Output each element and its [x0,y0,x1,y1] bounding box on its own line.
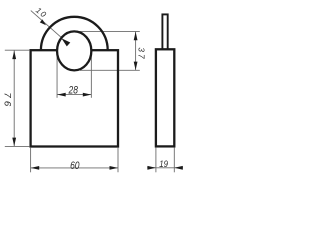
dim 19: left extension line [155,148,157,173]
dim 28: left extension line [56,53,58,98]
dim 19: left arrow (outside, pointing right) [147,166,156,170]
dim 60: left extension line [30,148,32,173]
dim 76: top extension line [5,49,30,51]
dim 10: arrow at inner ellipse [61,38,70,46]
dim 19: dimension line [147,167,183,169]
dim 10: leader line [31,11,62,38]
shackle rod (side view) [162,14,167,50]
dim 28: right arrow [83,93,92,97]
dim 10: arrow at outer arc [40,19,46,25]
dim 76: top arrow [12,51,16,60]
dim 19: right arrow (outside, pointing left) [174,166,183,170]
dim 37: bottom arrow [134,62,138,71]
dim 60: dimension line [31,167,118,169]
dim 37: dimension line [135,32,137,71]
dim 37: top extension line [77,30,140,32]
dim 60: left arrow [31,166,40,170]
dim 28: left arrow [57,93,65,97]
padlock body (front view) [31,50,118,146]
svg-text:19: 19 [159,158,168,169]
svg-text:60: 60 [70,160,80,172]
dim 28: dimension line [57,94,91,96]
dim 37: top arrow [134,32,138,41]
dim 28: right extension line [90,53,92,98]
dim 76: bottom extension line [5,145,30,147]
svg-text:37: 37 [136,47,145,59]
dim 60: right arrow [110,166,119,170]
padlock body (side view) [156,49,174,146]
shackle opening inner ellipse (front view) [57,31,91,70]
svg-text:28: 28 [68,85,79,97]
shackle outer arc (front view) [41,17,108,50]
dim 76: bottom arrow [12,138,16,147]
dim 19: right extension line [173,148,175,173]
dim 37: bottom extension line [80,69,140,71]
dim 76: dimension line [13,50,15,146]
dim 60: right extension line [117,148,119,173]
